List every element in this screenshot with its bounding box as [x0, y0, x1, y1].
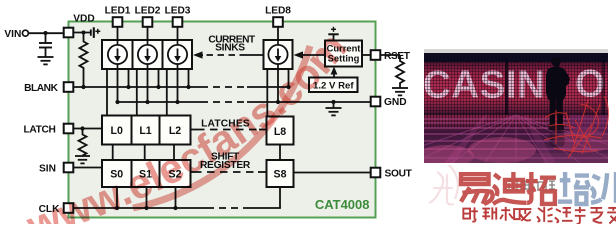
red caption 射频和天线设计专家: [463, 207, 616, 224]
label RSET: [384, 51, 411, 62]
wire RSET pin to resistor R2: [380, 54, 400, 56]
wire sink3 to blank bus: [186, 69, 190, 89]
pin CLK: [64, 203, 74, 213]
pin SIN: [64, 163, 74, 173]
wire sink1 to latch L0: [106, 69, 108, 116]
svg-text:REGISTER: REGISTER: [200, 160, 251, 171]
svg-text:LED3: LED3: [165, 6, 191, 17]
svg-text:Setting: Setting: [328, 52, 360, 63]
wire S1 to CLK bus: [144, 187, 148, 210]
battery plus terminal above Current Setting: [328, 27, 338, 41]
pin LED1: [113, 17, 123, 27]
wire S8 to CLK bus: [279, 187, 281, 208]
wire shift bus S2 to S8 (dashed): [190, 171, 267, 173]
wire sink1 to ground bus: [117, 69, 119, 102]
svg-text:SIN: SIN: [39, 163, 56, 174]
pin RSET: [371, 50, 381, 60]
svg-text:L0: L0: [111, 125, 123, 137]
label SIN: [39, 163, 56, 174]
faint ghost strokes: [429, 165, 458, 205]
shift register S0 label: [110, 169, 123, 181]
wire sink2 to blank bus: [156, 69, 160, 89]
terminal VIN: [22, 30, 28, 36]
label LATCHES: [201, 118, 250, 129]
svg-text:LED1: LED1: [105, 6, 131, 17]
svg-text:RSET: RSET: [384, 51, 411, 62]
label BLANK: [24, 83, 58, 94]
current sink LED8 box: [264, 40, 293, 69]
wire LED2 pin to sink: [147, 27, 149, 40]
label LED3: [165, 6, 191, 17]
block U3 1.2 V Ref: [309, 78, 358, 93]
label SHIFT REGISTER: [200, 151, 251, 171]
LED wall: [424, 62, 608, 115]
wire CLK bus: [73, 207, 281, 209]
latch L0 label: [111, 125, 123, 137]
arrow Current Setting to sink8: [294, 51, 326, 58]
wire L1 to S1: [144, 145, 146, 161]
arrow current-set distribution to sink group: [193, 51, 264, 58]
latch L1 label: [139, 125, 151, 137]
wire SIN pin to S0: [73, 167, 102, 169]
node junction VDD rail: [82, 31, 86, 35]
svg-text:S0: S0: [110, 169, 123, 181]
wire L0 to S0: [112, 145, 114, 161]
svg-text:L8: L8: [274, 126, 286, 138]
wire LATCH pin to L0: [73, 126, 102, 130]
label LED8: [265, 6, 291, 17]
svg-text:LATCHES: LATCHES: [201, 118, 250, 129]
floor: [424, 115, 608, 163]
svg-text:SINKS: SINKS: [215, 42, 245, 53]
svg-text:SOUT: SOUT: [385, 168, 413, 179]
wire VDD internal rail: [73, 32, 91, 34]
resistor R2 (RSET): [396, 55, 404, 88]
shift register S1 label: [139, 169, 152, 181]
person silhouette: [546, 57, 570, 130]
char 拓: [526, 172, 556, 204]
wire sink8 to blank bus: [286, 69, 290, 89]
wire sink1 to blank bus: [126, 69, 130, 89]
svg-text:BLANK: BLANK: [24, 83, 58, 94]
wire sink2 to ground bus: [145, 69, 149, 104]
wire internal ground bus to GND pin: [115, 100, 371, 104]
wire S8 to SOUT pin: [294, 172, 372, 174]
latch group box L0 L1 L2: [102, 116, 191, 145]
char 易: [461, 174, 493, 204]
pin SOUT: [371, 168, 381, 178]
char 迪: [493, 172, 527, 204]
wire S2 to CLK bus: [173, 187, 177, 210]
svg-text:VIN: VIN: [4, 29, 21, 40]
svg-text:S1: S1: [139, 169, 152, 181]
photo of LED CASINO display: [424, 49, 608, 53]
latch L2 label: [169, 125, 181, 137]
capacitor C2 (VDD bypass, polarized): [91, 27, 101, 38]
label VIN: [4, 29, 21, 40]
wire sink8 to latch L8: [266, 69, 268, 117]
svg-text:L2: L2: [169, 125, 181, 137]
caption 应用示例 (gray): [507, 180, 555, 191]
capacitor C1 (input cap to ground): [39, 33, 52, 57]
svg-text:LED2: LED2: [135, 6, 161, 17]
svg-text:GND: GND: [384, 97, 407, 108]
resistor R3 (LATCH pull-down): [79, 129, 87, 156]
char 培: [558, 172, 589, 204]
wire VIN to VDD pin: [29, 32, 64, 34]
current source symbol 3: [168, 41, 187, 69]
pin GND: [371, 97, 381, 107]
shift register S2 label: [169, 169, 182, 181]
svg-text:S8: S8: [274, 169, 287, 181]
shift register S8: [267, 160, 294, 187]
svg-text:CLK: CLK: [39, 204, 61, 215]
wire L2 to S2: [173, 145, 175, 161]
ground (below R3): [75, 156, 90, 163]
current sink group box: [102, 40, 192, 69]
wire latch bus L2 to L8 (dashed): [190, 129, 267, 131]
svg-text:LATCH: LATCH: [23, 124, 55, 135]
pin VDD: [64, 28, 74, 38]
label LED1: [105, 6, 131, 17]
label LED2: [135, 6, 161, 17]
wire LED1 pin to sink: [117, 27, 119, 40]
svg-text:1.2 V Ref: 1.2 V Ref: [313, 81, 354, 92]
ground (below R2): [392, 88, 408, 95]
pin LED2: [143, 17, 153, 27]
wire LED3 pin to sink: [177, 27, 179, 40]
current source symbol 1: [108, 41, 127, 69]
wire sink2 to latch L1: [136, 69, 138, 116]
svg-text:CAT4008: CAT4008: [315, 197, 370, 212]
wire LED8 pin to sink: [277, 27, 279, 40]
label GND: [384, 97, 407, 108]
label CURRENT SINKS: [208, 34, 256, 53]
svg-text:L1: L1: [139, 125, 151, 137]
pin LATCH: [64, 124, 74, 134]
ground (below C1): [38, 57, 54, 64]
label CAT4008: [315, 197, 370, 212]
ground (internal, on ground bus): [326, 102, 342, 115]
wire sink3 to latch L2: [166, 69, 168, 116]
pin LED3: [173, 17, 183, 27]
current source symbol 8: [268, 41, 287, 69]
wire L8 to S8: [279, 145, 281, 161]
wire BLANK bus: [73, 85, 289, 89]
pin BLANK: [64, 82, 74, 92]
svg-text:VDD: VDD: [73, 14, 95, 25]
pin LED8: [273, 17, 283, 27]
wire sink8 to ground bus: [276, 69, 280, 104]
svg-text:S2: S2: [169, 169, 182, 181]
label SOUT: [385, 168, 413, 179]
label VDD: [73, 14, 95, 25]
resistor R1 (BLANK pull-up): [80, 33, 88, 88]
wire sink3 to ground bus: [175, 69, 179, 104]
arrow 1.2V Ref to Current Setting: [331, 67, 338, 78]
wire S0 to CLK bus: [115, 187, 119, 210]
char 训: [591, 172, 616, 203]
svg-text:LED8: LED8: [265, 6, 291, 17]
node junction on VIN wire: [44, 31, 48, 35]
shift register group box S0 S1 S2: [102, 160, 191, 187]
label CLK: [39, 204, 61, 215]
latch L8: [267, 117, 294, 145]
current source symbol 2: [138, 41, 157, 69]
label LATCH: [23, 124, 55, 135]
CAT4008 chip outline: [69, 22, 376, 218]
wire Current Setting to RSET pin: [362, 54, 371, 56]
block U2 Current Setting: [325, 41, 362, 67]
